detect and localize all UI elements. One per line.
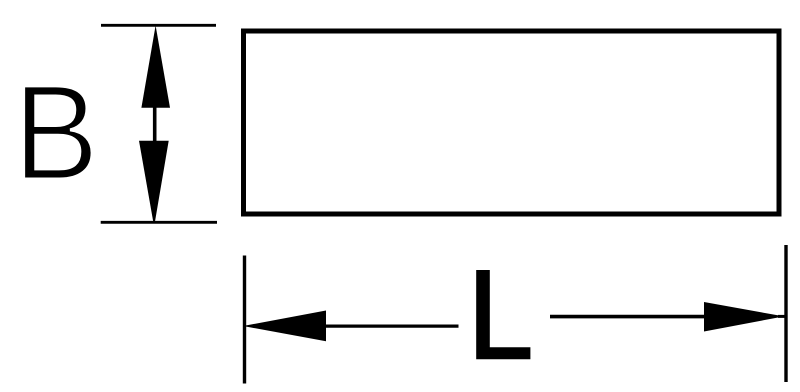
extension line: B dimension bottom tick [101,221,217,224]
svg-text:B: B [13,56,99,208]
extension line: L dimension right [784,245,787,382]
wire: L dimension line right segment [550,315,705,319]
wire: L dimension line left segment [325,324,459,327]
extension line: L dimension left [243,256,246,384]
rectangle: part outline [244,31,780,214]
arrowhead: B dimension down arrow [139,141,169,222]
arrowhead: L dimension right arrow [704,302,784,332]
extension line: B dimension top tick [101,24,216,27]
wire: B dimension line mid segment [153,107,157,142]
wire: right arrow tip connector [778,315,786,318]
arrowhead: B dimension up arrow [141,26,170,108]
arrowhead: L dimension left arrow [243,311,326,342]
dimension label L [476,270,530,359]
